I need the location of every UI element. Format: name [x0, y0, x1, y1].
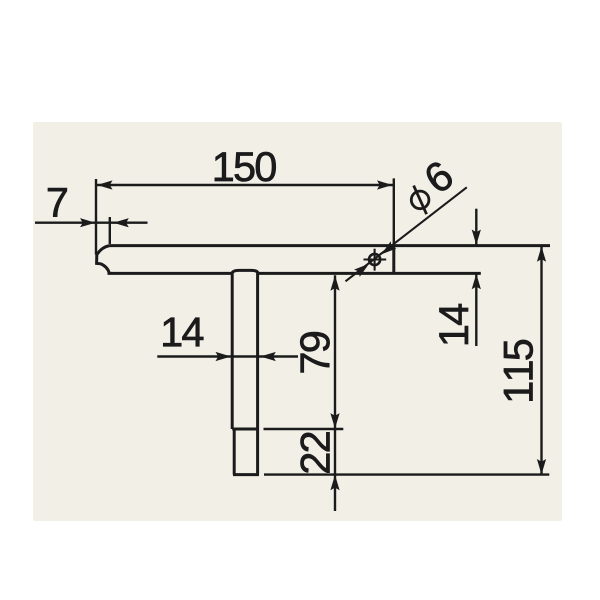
extension line from stem bottom to right [264, 473, 549, 475]
hole crosshair vertical [374, 249, 376, 271]
arrow 7 right (outside, points left) [113, 218, 129, 227]
arrow 115 top (points up) [537, 246, 546, 261]
dimension line 14 upper segment [475, 209, 477, 245]
arrow 14 stem left (outside, points right) [216, 352, 232, 361]
arrow 22 bottom (outside, points up) [330, 475, 339, 491]
arrow hole lower (points up-right at circle) [354, 260, 372, 277]
part: bar bottom edge right of stem + extension to 14 dim [258, 272, 481, 275]
dimension text 14 [439, 304, 468, 344]
dimension text 79 [300, 332, 329, 372]
arrow hole upper (points down-left at circle) [378, 241, 396, 258]
dimension line 115 [540, 246, 542, 474]
part: stem top dome [232, 270, 258, 273]
dimension text 7 [48, 188, 67, 217]
extension line shared by 150 and 7 (left) [95, 179, 97, 255]
dimension line 14 lower segment [475, 274, 477, 346]
dimension text 22 [301, 432, 330, 472]
dimension text 14 stem width [163, 318, 203, 347]
arrow 14 top (outside, points down) [472, 230, 481, 246]
part: stem lower left edge [233, 429, 236, 475]
dimension text 115 [504, 340, 533, 401]
arrow 14 bottom (outside, points up) [472, 274, 481, 290]
part: bar right end edge [392, 246, 395, 274]
dimension text 6 [422, 159, 455, 194]
part: bar left moulded end profile [97, 246, 110, 274]
dimension line 79 and 22 (shared vertical) [334, 275, 336, 511]
part: stem step line [232, 428, 259, 431]
hole crosshair horizontal [364, 258, 387, 260]
dimension line 7 [35, 221, 148, 223]
diameter symbol phi (circle) [411, 191, 429, 209]
part: stem bottom edge [233, 473, 259, 476]
arrow 7 left (outside, points right) [80, 218, 96, 227]
part: stem upper left edge [231, 273, 234, 429]
part: bar top edge + right extension line [110, 244, 551, 247]
arrow 150 right [377, 180, 393, 189]
dimension line 14 stem width [157, 355, 298, 357]
extension line from step to right [264, 428, 344, 430]
dimension line 150 [96, 184, 394, 186]
arrow 115 bottom (points down) [537, 459, 546, 475]
part: bar bottom edge left of stem [108, 272, 232, 275]
extension line 7 right [109, 217, 111, 244]
leader line for hole diameter [346, 187, 467, 281]
beige drawing panel [33, 122, 562, 521]
arrow 79 top (points up) [330, 275, 339, 291]
arrow 79 bottom / 22 top (points down) [330, 413, 339, 429]
dimension text 150 [215, 152, 276, 181]
arrow 14 stem right (outside, points left) [260, 352, 276, 361]
extension line 150 right / above bar right edge [393, 178, 395, 245]
arrow 150 left [97, 180, 113, 189]
diameter symbol phi (bar) [414, 186, 427, 215]
hole circle [369, 254, 380, 265]
part: stem right edge [256, 273, 259, 475]
